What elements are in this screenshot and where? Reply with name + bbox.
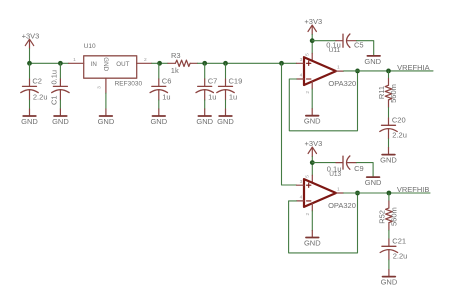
capacitor C2 xyxy=(21,63,48,109)
op-amp U13 OPA320 xyxy=(304,171,356,210)
node junction C6 tap xyxy=(157,61,162,66)
wire branch down to U13 noninverting input xyxy=(282,63,297,185)
wire R52 to C21 xyxy=(388,230,390,239)
pin 2 stub U11 xyxy=(311,82,313,90)
resistor R3 xyxy=(168,51,198,75)
pin 3 stub U10 xyxy=(105,78,107,93)
svg-text:R3: R3 xyxy=(171,51,181,60)
pin 4 stub U13 xyxy=(297,200,305,202)
wire R3 to main junctions xyxy=(198,62,297,64)
wire C5 to ground xyxy=(357,41,374,56)
svg-text:REF3030: REF3030 xyxy=(115,80,143,87)
svg-text:GND: GND xyxy=(150,117,167,126)
svg-text:2: 2 xyxy=(305,213,311,216)
svg-text:1u: 1u xyxy=(162,93,170,102)
wire C9 branch xyxy=(312,162,336,164)
svg-text:C20: C20 xyxy=(392,116,406,125)
node junction U11 feedback tap xyxy=(355,69,360,74)
capacitor C6 xyxy=(150,63,171,109)
svg-text:U10: U10 xyxy=(84,43,96,50)
svg-text:1k: 1k xyxy=(171,66,179,75)
svg-text:VREFHIB: VREFHIB xyxy=(397,185,430,194)
pin 2 stub U13 xyxy=(311,203,313,211)
wire U13 output net VREFHIB xyxy=(344,192,431,194)
svg-text:GND: GND xyxy=(196,117,213,126)
node junction C9 tap xyxy=(310,160,315,165)
ground C7 xyxy=(196,109,213,126)
svg-text:U11: U11 xyxy=(329,47,341,54)
svg-text:2.2u: 2.2u xyxy=(33,93,48,102)
wire supply to U11 V+ xyxy=(311,35,313,54)
node junction U13 feedback tap xyxy=(355,191,360,196)
svg-text:4: 4 xyxy=(300,73,303,79)
svg-text:0.1u: 0.1u xyxy=(50,70,59,85)
svg-text:VREFHIA: VREFHIA xyxy=(397,63,430,72)
svg-text:OUT: OUT xyxy=(116,61,129,68)
wire main rail segment xyxy=(30,62,69,64)
pin 1 stub U10 xyxy=(69,62,84,64)
svg-text:3: 3 xyxy=(300,179,303,185)
node junction C5 tap xyxy=(310,38,315,43)
svg-text:R11: R11 xyxy=(377,86,386,99)
wire pin3 to ground xyxy=(105,93,107,109)
svg-text:C9: C9 xyxy=(354,164,364,173)
svg-text:3: 3 xyxy=(97,86,103,89)
svg-text:1u: 1u xyxy=(208,93,216,102)
svg-text:GND: GND xyxy=(102,57,109,71)
wire R11 top xyxy=(388,71,390,79)
svg-text:GND: GND xyxy=(364,57,381,66)
svg-text:C2: C2 xyxy=(32,77,42,86)
node junction C7 tap xyxy=(202,61,207,66)
node junction branch to U13 xyxy=(279,61,284,66)
ground C20 xyxy=(380,148,397,165)
node junction C19 tap xyxy=(223,61,228,66)
svg-text:C1: C1 xyxy=(50,95,59,105)
ground C5 xyxy=(364,56,381,66)
wire supply to main rail xyxy=(29,49,31,64)
capacitor C9 xyxy=(327,156,364,173)
node junction C2 tap xyxy=(27,61,32,66)
svg-text:1u: 1u xyxy=(229,93,237,102)
svg-text:GND: GND xyxy=(365,178,382,187)
svg-text:5: 5 xyxy=(305,175,311,178)
svg-text:GND: GND xyxy=(217,117,234,126)
svg-text:GND: GND xyxy=(304,239,321,248)
supply +3V3 left xyxy=(22,32,40,49)
ground C2 xyxy=(21,109,38,126)
ground U13 xyxy=(304,231,321,248)
pin 5 stub U11 xyxy=(311,53,313,61)
ground C1 xyxy=(52,109,69,126)
svg-text:4: 4 xyxy=(300,195,303,201)
capacitor C19 xyxy=(217,63,242,109)
svg-text:560m: 560m xyxy=(390,207,399,226)
svg-text:C19: C19 xyxy=(229,77,243,86)
wire U11 output net VREFHIA xyxy=(344,70,434,72)
pin 1 stub U13 output xyxy=(336,192,344,194)
wire R52 top xyxy=(388,193,390,201)
wire U13 V- to ground xyxy=(311,211,313,231)
ground C6 xyxy=(150,109,167,126)
node junction C1 tap xyxy=(58,61,63,66)
svg-text:GND: GND xyxy=(52,117,69,126)
svg-text:R52: R52 xyxy=(377,210,386,224)
svg-text:2: 2 xyxy=(144,57,147,63)
capacitor C21 xyxy=(380,237,407,270)
svg-text:IN: IN xyxy=(91,61,97,68)
svg-text:C21: C21 xyxy=(392,237,406,246)
ground U11 xyxy=(304,109,321,126)
svg-text:2.2u: 2.2u xyxy=(392,130,407,139)
resistor R52 xyxy=(377,201,398,230)
svg-text:OPA320: OPA320 xyxy=(328,79,356,88)
op-amp U11 OPA320 xyxy=(304,47,356,88)
pin 3 stub U11 xyxy=(297,62,305,64)
svg-text:GND: GND xyxy=(380,156,397,165)
ground C21 xyxy=(381,270,398,287)
svg-text:+3V3: +3V3 xyxy=(304,17,322,26)
capacitor C1 xyxy=(50,63,70,109)
svg-text:1: 1 xyxy=(337,65,340,71)
svg-text:+3V3: +3V3 xyxy=(305,139,323,148)
svg-text:GND: GND xyxy=(98,117,115,126)
svg-text:2.2u: 2.2u xyxy=(393,251,408,260)
ground U10 xyxy=(98,109,115,126)
supply +3V3 U13 xyxy=(305,139,323,156)
pin 5 stub U13 xyxy=(311,175,313,183)
svg-text:GND: GND xyxy=(304,117,321,126)
capacitor C7 xyxy=(196,63,217,109)
node junction R11 tap xyxy=(386,69,391,74)
supply +3V3 U11 xyxy=(304,17,322,34)
wire U11 V- to ground xyxy=(311,89,313,109)
pin 4 stub U11 xyxy=(297,78,305,80)
pin 1 stub U11 output xyxy=(336,70,344,72)
ground C19 xyxy=(217,109,234,126)
svg-text:1: 1 xyxy=(73,57,76,63)
svg-text:U13: U13 xyxy=(329,171,341,178)
svg-text:GND: GND xyxy=(21,117,38,126)
svg-text:+3V3: +3V3 xyxy=(22,32,40,41)
svg-text:C7: C7 xyxy=(208,77,218,86)
wire U13 feedback loop xyxy=(289,193,358,253)
svg-text:C5: C5 xyxy=(354,41,364,50)
pin 3 stub U13 xyxy=(297,184,305,186)
capacitor C20 xyxy=(380,116,407,148)
IC U10 REF3030 xyxy=(84,43,143,88)
node junction R52 tap xyxy=(387,191,392,196)
svg-text:5: 5 xyxy=(305,53,311,56)
svg-text:3: 3 xyxy=(300,57,303,63)
capacitor C5 xyxy=(326,34,363,50)
svg-text:GND: GND xyxy=(381,278,398,287)
wire pin2 to C6 tap xyxy=(152,62,168,64)
svg-text:2: 2 xyxy=(305,91,311,94)
wire R11 to C20 xyxy=(388,108,390,119)
wire C5 branch xyxy=(312,40,336,42)
ground C9 xyxy=(365,177,382,187)
wire U11 feedback loop xyxy=(289,71,357,131)
wire C9 to ground xyxy=(357,163,374,177)
pin 2 stub U10 xyxy=(137,62,152,64)
svg-text:560m: 560m xyxy=(389,84,398,103)
svg-text:C6: C6 xyxy=(162,77,172,86)
wire supply to U13 V+ xyxy=(311,157,313,176)
resistor R11 xyxy=(377,79,398,108)
svg-text:1: 1 xyxy=(337,187,340,193)
svg-text:OPA320: OPA320 xyxy=(328,201,356,210)
